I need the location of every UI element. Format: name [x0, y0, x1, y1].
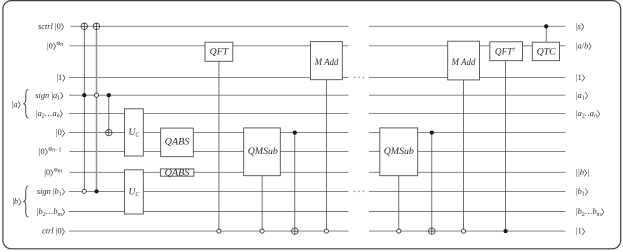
svg-text:a: a: [13, 100, 17, 109]
svg-text:ctrl: ctrl: [42, 227, 54, 236]
svg-text:0: 0: [58, 128, 62, 137]
svg-text:m: m: [597, 212, 602, 218]
svg-text:0: 0: [57, 227, 61, 236]
svg-text:sign: sign: [37, 187, 51, 196]
svg-text:s: s: [578, 22, 581, 31]
svg-text:n: n: [594, 114, 597, 120]
svg-text:0: 0: [46, 168, 50, 177]
svg-text:−1: −1: [55, 148, 61, 154]
svg-text:0: 0: [49, 41, 53, 50]
svg-text:QFT†: QFT†: [495, 47, 516, 57]
svg-text:1: 1: [59, 192, 62, 198]
svg-text:b: b: [580, 168, 584, 177]
svg-text:b: b: [14, 197, 18, 206]
svg-text:sign: sign: [35, 91, 49, 100]
svg-text:M Add: M Add: [314, 58, 339, 68]
svg-text:b: b: [584, 41, 588, 50]
svg-text:0: 0: [40, 147, 44, 156]
svg-text:n: n: [60, 42, 63, 48]
svg-text:sctrl: sctrl: [38, 22, 53, 31]
svg-text:QTC: QTC: [537, 47, 557, 57]
svg-text:QMSub: QMSub: [384, 147, 414, 157]
svg-text:n: n: [57, 114, 60, 120]
svg-text:1: 1: [57, 96, 60, 102]
svg-text:QMSub: QMSub: [248, 147, 278, 157]
svg-text:0: 0: [57, 22, 61, 31]
svg-text:QFT: QFT: [210, 47, 229, 57]
svg-text:1: 1: [582, 192, 585, 198]
svg-text:QABS: QABS: [165, 169, 190, 179]
svg-text:QABS: QABS: [165, 137, 190, 147]
svg-text:1: 1: [578, 227, 582, 236]
svg-text:1: 1: [58, 73, 62, 82]
svg-text:M Add: M Add: [451, 58, 476, 68]
svg-text:m: m: [57, 212, 62, 218]
svg-text:1: 1: [582, 96, 585, 102]
svg-text:1: 1: [578, 73, 582, 82]
svg-text:m: m: [58, 168, 63, 174]
